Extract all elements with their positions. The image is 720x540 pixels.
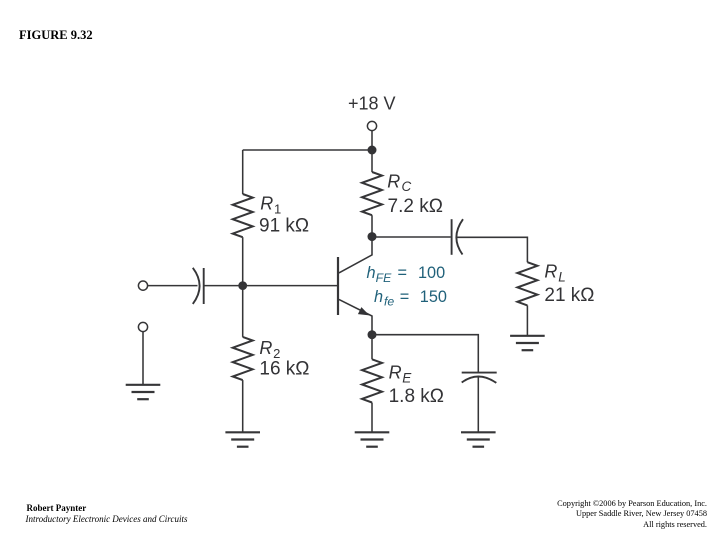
resistor RE <box>362 359 382 402</box>
transistor Q1 emitter arrow <box>358 307 370 315</box>
credit author <box>27 503 87 513</box>
resistor R1 <box>233 194 253 237</box>
wire emitter node to bypass cap corner <box>372 335 478 372</box>
capacitor output coupling (straight plate) <box>451 219 453 255</box>
resistor RL <box>517 262 537 305</box>
wire RL to ground <box>526 305 528 335</box>
label 7.2 kOhm <box>388 196 443 217</box>
ground input <box>126 385 161 399</box>
figure title FIGURE 9.32 <box>19 28 93 43</box>
label +18 V <box>348 94 396 114</box>
capacitor bypass (curved bottom plate) <box>462 376 497 382</box>
svg-text:150: 150 <box>420 288 447 306</box>
resistor RC <box>362 172 382 215</box>
label hFE = 100 <box>367 264 446 285</box>
svg-text:L: L <box>558 270 566 285</box>
wire rail corner down to R1 <box>242 150 244 194</box>
resistor R2 <box>233 337 253 380</box>
wire top rail <box>243 149 372 151</box>
svg-text:1: 1 <box>274 201 281 216</box>
junction dot supply node <box>368 146 377 155</box>
source ground terminal (open circle) <box>138 322 147 331</box>
ground under RL <box>510 336 545 350</box>
wire base node down to R2 <box>242 286 244 337</box>
capacitor bypass (top straight plate) <box>462 372 497 374</box>
capacitor output coupling (curved plate) <box>456 219 463 254</box>
junction dot collector node <box>368 232 377 241</box>
credit book title <box>26 514 188 524</box>
svg-text:7.2 kΩ: 7.2 kΩ <box>388 196 443 217</box>
capacitor input coupling (curved plate) <box>193 268 200 304</box>
wire coupling cap to base node <box>204 285 243 287</box>
capacitor input coupling (straight plate) <box>203 268 205 304</box>
label RE <box>389 363 413 386</box>
ground under R2 <box>225 432 260 446</box>
wire RC to collector node <box>371 215 373 236</box>
label 1.8 kOhm <box>389 386 444 407</box>
svg-text:=: = <box>398 264 408 282</box>
wire collector node to output cap <box>372 236 451 238</box>
svg-text:FE: FE <box>376 271 393 285</box>
svg-text:100: 100 <box>418 264 445 282</box>
input terminal (open circle) <box>138 281 147 290</box>
ground under RE <box>355 432 390 446</box>
wire emitter node down to RE <box>371 335 373 360</box>
wire supply terminal to rail <box>371 131 373 150</box>
svg-text:h: h <box>374 288 383 306</box>
transistor Q1 collector lead <box>339 237 372 273</box>
svg-text:1.8 kΩ: 1.8 kΩ <box>389 386 444 407</box>
transistor Q1 base bar <box>337 257 339 315</box>
wire R2 to ground <box>242 380 244 432</box>
transistor Q1 emitter lead <box>339 299 372 334</box>
svg-text:R: R <box>260 193 273 213</box>
label 91 kOhm <box>259 216 309 237</box>
copyright notice <box>557 499 707 530</box>
svg-text:R: R <box>389 363 402 383</box>
wire bypass cap to ground <box>477 377 479 433</box>
label 21 kOhm <box>544 285 594 306</box>
svg-text:R: R <box>259 338 272 358</box>
supply terminal (open circle) <box>367 121 376 130</box>
svg-text:E: E <box>402 371 412 386</box>
label RL <box>544 262 565 285</box>
label hfe = 150 <box>374 288 447 309</box>
svg-text:C: C <box>402 179 412 194</box>
wire RE to ground <box>371 403 373 433</box>
svg-text:91 kΩ: 91 kΩ <box>259 216 309 237</box>
label RC <box>387 172 411 195</box>
wire input terminal to coupling cap <box>148 285 198 287</box>
svg-text:R: R <box>387 172 400 192</box>
svg-text:16 kΩ: 16 kΩ <box>259 359 309 380</box>
svg-text:21 kΩ: 21 kΩ <box>544 285 594 306</box>
junction dot base node <box>238 281 247 290</box>
svg-text:h: h <box>367 264 376 282</box>
label R2 <box>259 338 280 361</box>
label 16 kOhm <box>259 359 309 380</box>
wire base node to transistor base <box>243 285 337 287</box>
wire supply node down to RC <box>371 150 373 172</box>
junction dot emitter node <box>368 330 377 339</box>
wire terminal to input ground <box>142 332 144 385</box>
label R1 <box>260 193 281 216</box>
wire R1 to base node <box>242 237 244 285</box>
ground under bypass cap <box>461 432 496 446</box>
svg-text:fe: fe <box>384 295 394 309</box>
wire output cap to RL corner <box>457 237 528 262</box>
svg-text:R: R <box>544 262 557 282</box>
svg-text:+18 V: +18 V <box>348 94 396 114</box>
svg-text:=: = <box>400 288 410 306</box>
